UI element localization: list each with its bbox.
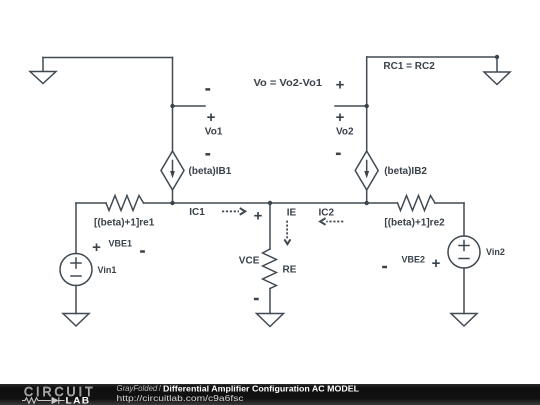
label IC2 bbox=[319, 208, 335, 219]
label Vo2 bbox=[336, 127, 354, 138]
ground (Vin1) bbox=[63, 314, 89, 327]
wire RE bottom bbox=[269, 289, 271, 314]
label IE bbox=[287, 207, 297, 218]
svg-text:Vo1: Vo1 bbox=[205, 127, 223, 138]
ground (top left) bbox=[30, 58, 56, 84]
svg-text:Vo2: Vo2 bbox=[336, 127, 354, 138]
wire left collector vertical bbox=[172, 58, 174, 152]
wire Vo1 tap stub bbox=[173, 105, 206, 107]
current arrow IC1 bbox=[222, 209, 245, 215]
label (beta)IB1 bbox=[189, 166, 232, 177]
label polarity + VCE bbox=[254, 208, 263, 225]
label polarity + Vo2 bbox=[336, 109, 345, 126]
svg-text:[(beta)+1]re2: [(beta)+1]re2 bbox=[384, 218, 445, 229]
label Vin1 bbox=[98, 265, 117, 275]
logo circuit squiggle bbox=[22, 397, 65, 403]
wire IB2 bottom bbox=[366, 190, 368, 203]
wire base rail left bbox=[76, 202, 106, 204]
svg-text:GrayFolded: GrayFolded bbox=[117, 384, 158, 393]
label polarity - VBE2 bbox=[382, 266, 387, 269]
svg-text:+: + bbox=[207, 109, 216, 126]
wire Vin1 top bbox=[75, 203, 77, 254]
current arrow IE bbox=[285, 221, 290, 245]
node top-right junction bbox=[495, 55, 499, 59]
current source (beta)IB2 bbox=[355, 151, 378, 190]
voltage source Vin2 bbox=[448, 236, 480, 268]
label IC1 bbox=[189, 207, 205, 218]
label Vo1 bbox=[205, 127, 223, 138]
svg-text:VBE2: VBE2 bbox=[402, 255, 426, 265]
node middle rail junction bbox=[268, 201, 272, 205]
svg-text:RE: RE bbox=[283, 265, 297, 276]
resistor [(beta)+1]re1 bbox=[106, 196, 144, 211]
svg-text:LAB: LAB bbox=[66, 396, 91, 405]
current arrow IC2 bbox=[320, 219, 343, 225]
svg-text:[(beta)+1]re1: [(beta)+1]re1 bbox=[94, 218, 155, 229]
svg-text:+: + bbox=[336, 77, 345, 94]
wire top-left horizontal bbox=[43, 57, 173, 59]
label polarity - above Vo1 bbox=[205, 88, 210, 91]
svg-text:IC1: IC1 bbox=[189, 207, 205, 218]
resistor RE bbox=[263, 249, 277, 289]
footer url line bbox=[117, 393, 245, 403]
svg-text:VBE1: VBE1 bbox=[109, 239, 133, 249]
svg-text:IC2: IC2 bbox=[319, 208, 335, 219]
svg-text:(beta)IB2: (beta)IB2 bbox=[384, 166, 427, 177]
logo CIRCUIT text bbox=[24, 385, 96, 399]
label Vin2 bbox=[486, 247, 505, 257]
svg-text:Vin2: Vin2 bbox=[486, 247, 505, 257]
svg-text:+: + bbox=[254, 208, 263, 225]
label RC1 = RC2 bbox=[383, 61, 435, 72]
svg-text:http://circuitlab.com/c9a6fsc: http://circuitlab.com/c9a6fsc bbox=[117, 393, 245, 403]
svg-text:IE: IE bbox=[287, 207, 297, 218]
svg-text:(beta)IB1: (beta)IB1 bbox=[189, 166, 232, 177]
label [(beta)+1]re2 bbox=[384, 218, 445, 229]
ground (top right) bbox=[484, 57, 510, 85]
label VBE1 bbox=[109, 239, 133, 249]
svg-text:+: + bbox=[432, 255, 441, 272]
svg-text:Differential Amplifier Configu: Differential Amplifier Configuration AC … bbox=[163, 383, 359, 393]
svg-text:+: + bbox=[92, 239, 101, 256]
label polarity - below Vo1 bbox=[205, 153, 210, 156]
wire top-right horizontal bbox=[367, 56, 497, 58]
label Vo = Vo2-Vo1 bbox=[254, 78, 323, 89]
label (beta)IB2 bbox=[384, 166, 427, 177]
label polarity - VCE bbox=[254, 298, 259, 301]
wire Vin1 bottom bbox=[75, 286, 77, 314]
footer title line bbox=[117, 383, 360, 393]
label VCE bbox=[239, 255, 260, 266]
wire Vin2 bottom bbox=[463, 268, 465, 314]
label polarity + VBE1 bbox=[92, 239, 101, 256]
label polarity + VBE2 bbox=[432, 255, 441, 272]
svg-text:Vin1: Vin1 bbox=[98, 265, 117, 275]
label [(beta)+1]re1 bbox=[94, 218, 155, 229]
wire middle rail bbox=[144, 202, 398, 204]
svg-text:Vo = Vo2-Vo1: Vo = Vo2-Vo1 bbox=[254, 78, 323, 89]
wire Vo2 tap stub bbox=[335, 105, 367, 107]
logo LAB text bbox=[66, 396, 91, 405]
footer bar bbox=[0, 384, 540, 405]
label RE bbox=[283, 265, 297, 276]
node left rail junction bbox=[170, 201, 174, 205]
node Vo1 tap junction bbox=[170, 104, 174, 108]
svg-text:RC1 = RC2: RC1 = RC2 bbox=[383, 61, 435, 72]
label polarity + above Vo2 bbox=[336, 77, 345, 94]
svg-text:+: + bbox=[336, 109, 345, 126]
svg-text:VCE: VCE bbox=[239, 255, 260, 266]
wire IB1 bottom bbox=[172, 190, 174, 203]
wire base rail right bbox=[435, 202, 464, 204]
wire RE top bbox=[269, 203, 271, 249]
wire right collector vertical bbox=[366, 57, 368, 151]
label polarity - below Vo2 bbox=[336, 153, 341, 156]
ground (RE) bbox=[257, 314, 284, 327]
node right rail junction bbox=[365, 201, 369, 205]
resistor [(beta)+1]re2 bbox=[398, 196, 436, 211]
label polarity + Vo1 bbox=[207, 109, 216, 126]
wire Vin2 top bbox=[463, 203, 465, 236]
current source (beta)IB1 bbox=[161, 151, 184, 190]
label polarity - VBE1 bbox=[140, 250, 145, 253]
ground (Vin2) bbox=[451, 314, 477, 327]
voltage source Vin1 bbox=[60, 254, 92, 286]
node Vo2 tap junction bbox=[365, 104, 369, 108]
label VBE2 bbox=[402, 255, 426, 265]
